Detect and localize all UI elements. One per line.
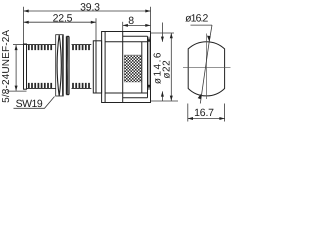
- svg-text:39.3: 39.3: [80, 2, 100, 14]
- leader arrow to bore line: [161, 23, 163, 102]
- hex nut SW19: [56, 35, 64, 96]
- threaded section 1: [27, 45, 56, 89]
- svg-text:ø16.2: ø16.2: [185, 12, 208, 24]
- knurl: [124, 55, 141, 82]
- svg-text:ø22: ø22: [161, 60, 172, 79]
- dim phi22 (body height): [151, 33, 179, 101]
- thread diameter dim: [7, 45, 27, 92]
- svg-text:16.7: 16.7: [194, 107, 214, 119]
- dim 8: [123, 22, 151, 32]
- dim 22.5: [24, 18, 97, 41]
- vertical centerline: [205, 34, 207, 100]
- lock washer: [66, 36, 69, 94]
- left end cap: [24, 44, 27, 89]
- dim 16.7: [188, 104, 225, 122]
- dim phi14.6: [148, 37, 150, 90]
- end view outline (circle with side flats): [188, 42, 224, 96]
- horizontal centerline: [183, 66, 231, 68]
- svg-text:8: 8: [128, 15, 134, 27]
- shoulder / neck: [93, 41, 101, 93]
- threaded section 2: [72, 45, 92, 89]
- dim 39.3: [24, 7, 151, 44]
- dim phi16.2 (label, underline, diagonal leader): [191, 25, 213, 103]
- svg-text:22.5: 22.5: [53, 12, 73, 24]
- body (right, with flange): [102, 32, 151, 103]
- svg-text:5/8-24UNEF-2A: 5/8-24UNEF-2A: [1, 30, 12, 103]
